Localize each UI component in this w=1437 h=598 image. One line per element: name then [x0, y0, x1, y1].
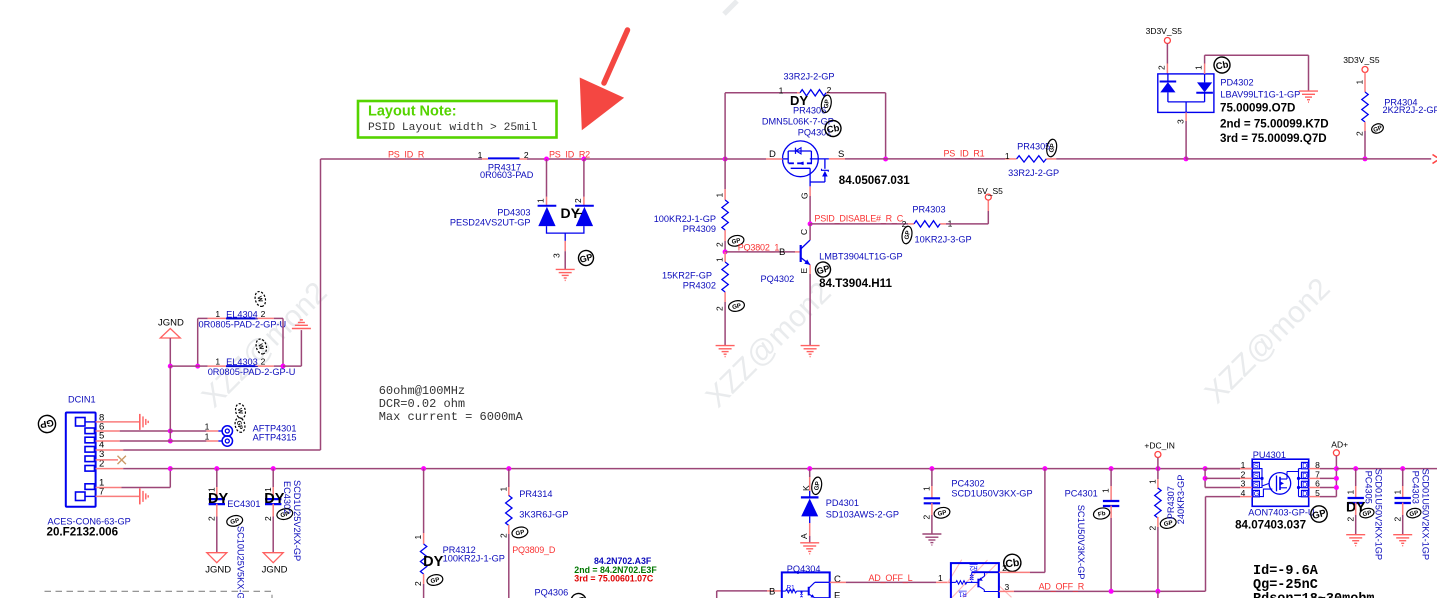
wire bus to right edge [1186, 158, 1431, 160]
svg-text:PC4305: PC4305 [1364, 471, 1374, 504]
junction node PQ3802_1 [723, 249, 728, 254]
wire PD4303 pin3 to ground [552, 241, 566, 270]
junction node PR4307 [1156, 466, 1161, 471]
svg-text:1: 1 [1345, 490, 1355, 495]
resistor PR4304 2K2R2J-2-GP [1355, 73, 1437, 137]
svg-text:EL4304: EL4304 [226, 309, 258, 319]
power terminal AD+ [1331, 440, 1348, 456]
wire bus drop to pin2 [1204, 469, 1206, 488]
junction node pin2 [1203, 476, 1208, 481]
junction node PC4301 [1109, 466, 1114, 471]
svg-text:R1: R1 [958, 590, 967, 597]
svg-text:0R0603-PAD: 0R0603-PAD [480, 170, 534, 180]
svg-text:100KR2J-1-GP: 100KR2J-1-GP [443, 554, 505, 564]
pin7 lead PU4301 [1309, 477, 1320, 479]
stamp near PR4314 [511, 526, 529, 539]
svg-text:AFTP4315: AFTP4315 [253, 433, 297, 443]
svg-text:G: G [800, 192, 810, 199]
wire PD4302 pin3 down to bus [1176, 112, 1187, 158]
junction node AD row2 [1334, 476, 1339, 481]
junction node PR4307 ADOFFR [1155, 589, 1160, 594]
svg-text:DMN5L06K-7-GP: DMN5L06K-7-GP [762, 117, 834, 127]
wire MOSFET gate down [800, 186, 811, 224]
svg-text:1: 1 [1148, 479, 1158, 484]
svg-text:1: 1 [215, 309, 220, 319]
wire PR4302 to ground [724, 302, 726, 346]
svg-text:PR4307: PR4307 [1166, 486, 1176, 519]
svg-text:PS_ID_R1: PS_ID_R1 [944, 149, 985, 159]
svg-text:0R0805-PAD-2-GP-U: 0R0805-PAD-2-GP-U [199, 320, 287, 330]
wire EL4304 right vertical [282, 318, 284, 366]
resistor PR4307 240KR3-GP [1148, 469, 1162, 592]
junction node PC4301 ADOFFR [1109, 589, 1114, 594]
svg-text:PR4309: PR4309 [683, 224, 716, 234]
off-page connector right [1433, 155, 1437, 164]
junction node PU4301 pin1 [1203, 466, 1208, 471]
svg-text:AD+: AD+ [1331, 440, 1348, 450]
svg-text:3K3R6J-GP: 3K3R6J-GP [519, 510, 568, 520]
svg-text:PC4303: PC4303 [1411, 471, 1421, 504]
note 60ohm text [379, 384, 524, 424]
svg-text:2K2R2J-2-GP: 2K2R2J-2-GP [1383, 105, 1437, 115]
svg-text:E: E [834, 591, 840, 598]
svg-text:2: 2 [261, 309, 266, 319]
junction node pin5 JGND [168, 439, 173, 444]
wire bus down to PQ4303 pin2 [1044, 469, 1046, 573]
svg-text:SCD01U50V2KX-1GP: SCD01U50V2KX-1GP [1421, 469, 1431, 560]
wire loop right vertical [885, 93, 887, 159]
stamp near PR4307 [1159, 516, 1177, 529]
note Id Qg Rdson [1253, 564, 1375, 598]
wire MOSFET source to bus right [845, 158, 943, 160]
svg-text:PSID_DISABLE#_R_C: PSID_DISABLE#_R_C [814, 214, 903, 224]
power terminal +DC_IN [1144, 441, 1174, 458]
wire gate down to AD_OFF_R [1205, 497, 1207, 592]
junction node AD row3 [1334, 485, 1339, 490]
jumper EL4304 0R0805-PAD-2-GP-U [198, 309, 286, 330]
svg-text:3: 3 [552, 253, 562, 258]
svg-text:S: S [1254, 463, 1259, 470]
resistor PR4303 10KR2J-3-GP [902, 205, 972, 245]
svg-text:C: C [834, 574, 841, 585]
watermark partial top [724, 1, 737, 14]
earth ground above EL4303 right [292, 328, 311, 330]
svg-text:D: D [1302, 473, 1307, 480]
svg-text:2: 2 [498, 533, 508, 538]
junction node PD4301 [807, 466, 812, 471]
junction node MOSFET source [883, 157, 888, 162]
svg-text:3: 3 [1005, 582, 1010, 592]
stamp Cb near PD4302 [1213, 56, 1232, 75]
svg-text:PR4314: PR4314 [519, 489, 552, 499]
svg-text:PQ3809_D: PQ3809_D [512, 545, 556, 555]
svg-text:1: 1 [922, 486, 932, 491]
stamp near PR4312 [426, 573, 444, 586]
svg-text:2: 2 [922, 515, 932, 520]
junction node PS_ID_R2 pin2 [581, 157, 586, 162]
svg-text:1: 1 [536, 198, 546, 203]
svg-text:5: 5 [1315, 488, 1320, 498]
svg-text:JGND: JGND [262, 565, 288, 576]
pin1 lead PU4301 [1205, 468, 1240, 470]
junction node PR4304 bus [1363, 156, 1368, 161]
stamp near PR4304 [1370, 122, 1384, 135]
wire DCIN pin1 row [96, 487, 122, 489]
svg-text:PC4302: PC4302 [951, 479, 984, 489]
capacitor EC4301 SC10U25V5KX-GP [207, 469, 261, 553]
ground below PR4302 [716, 345, 735, 347]
svg-text:JGND: JGND [158, 318, 184, 329]
wire 3D3V_S5 to PD4302 pin2 [1157, 44, 1168, 74]
pin5 lead PU4301 [1309, 496, 1320, 498]
svg-text:2: 2 [413, 581, 423, 586]
junction node PS_ID_R2 pin1 [544, 157, 549, 162]
wire PD4302 pin1 up and right to ground [1194, 55, 1309, 91]
svg-text:LMBT3904LT1G-GP: LMBT3904LT1G-GP [819, 252, 903, 262]
ground JGND top [158, 318, 184, 339]
svg-text:1: 1 [205, 432, 210, 442]
wire PR4304 to bus [1364, 131, 1366, 159]
svg-text:1: 1 [1101, 488, 1111, 493]
wire +DC_IN to bus [1157, 458, 1159, 469]
power terminal 3D3V_S5 left [1146, 26, 1183, 44]
power terminal 5V_S5 [977, 186, 1003, 200]
svg-text:Cb: Cb [1215, 59, 1230, 72]
svg-text:2: 2 [207, 516, 217, 521]
svg-text:1: 1 [1241, 460, 1246, 470]
svg-text:SC1U50V3KX-GP: SC1U50V3KX-GP [1076, 505, 1086, 580]
pin4 gate lead PU4301 [1206, 496, 1241, 498]
svg-text:SCD1U50V3KX-GP: SCD1U50V3KX-GP [951, 489, 1032, 499]
transistor PQ4304 digital NPN block [769, 564, 841, 598]
svg-text:2: 2 [1345, 517, 1355, 522]
svg-text:C: C [799, 229, 809, 235]
svg-text:3: 3 [1176, 119, 1186, 124]
svg-text:3rd = 75.00601.07C: 3rd = 75.00601.07C [574, 574, 654, 584]
svg-text:75.00099.O7D: 75.00099.O7D [1220, 102, 1295, 115]
svg-text:1: 1 [498, 487, 508, 492]
no-connect X pin3 [118, 456, 126, 464]
transistor PQ4302 LMBT3904LT1G NPN [761, 224, 903, 284]
ground JGND below EC4301 [205, 553, 231, 576]
svg-text:B: B [769, 587, 775, 598]
junction node EC4302 [271, 466, 276, 471]
jumper EL4303 0R0805-PAD-2-GP-U [170, 357, 295, 377]
svg-text:1: 1 [938, 573, 943, 583]
svg-text:8: 8 [1315, 460, 1320, 470]
svg-text:10KR2J-3-GP: 10KR2J-3-GP [915, 235, 972, 245]
stamp near EC4302 [276, 507, 294, 520]
svg-text:3D3V_S5: 3D3V_S5 [1146, 26, 1183, 36]
wire EL4303 node to earth ground [283, 365, 301, 367]
ground below PD4303 [556, 268, 575, 270]
svg-text:DY: DY [423, 554, 443, 570]
diode PD4301 SD103AWS-2-GP [799, 469, 899, 543]
wire DCIN pin8 to chassis ground [96, 421, 140, 423]
capacitor PC4303 SCD01U50V2KX-1GP [1392, 469, 1411, 535]
wire PR4303 to 5V_S5 [946, 223, 988, 225]
svg-text:1: 1 [1355, 80, 1365, 85]
svg-text:33R2J-2-GP: 33R2J-2-GP [784, 72, 835, 82]
stamp near PC4302 [933, 506, 951, 519]
wire PQ4302 emitter to ground [809, 274, 811, 346]
svg-text:84.07403.037: 84.07403.037 [1235, 519, 1306, 532]
svg-text:PC4301: PC4301 [1065, 489, 1098, 499]
svg-text:2: 2 [1392, 517, 1402, 522]
wire PR4305 to PD4302 node [1056, 158, 1186, 160]
svg-text:5V_S5: 5V_S5 [977, 186, 1003, 196]
svg-text:+DC_IN: +DC_IN [1144, 441, 1174, 451]
svg-text:3rd = 75.00099.Q7D: 3rd = 75.00099.Q7D [1220, 132, 1327, 145]
junction node MOSFET drain loop [723, 157, 728, 162]
svg-text:PR4303: PR4303 [912, 205, 945, 215]
stamp ovals near AFTP [234, 403, 246, 419]
svg-text:PD4303: PD4303 [497, 208, 530, 218]
junction node PR4314 [506, 466, 511, 471]
stamp GP near PQ4302 [814, 260, 832, 278]
svg-text:PR4305: PR4305 [1017, 142, 1050, 152]
diode PD4302 LBAV99LT1G dual [1158, 74, 1300, 113]
wire EL4304 left vertical [197, 318, 199, 366]
svg-text:1: 1 [1005, 151, 1010, 161]
wire PR4309 to base node [724, 241, 726, 252]
svg-text:D: D [1302, 482, 1307, 489]
test point AFTP4315 [205, 432, 297, 447]
svg-text:E: E [799, 268, 809, 274]
svg-text:4: 4 [1241, 488, 1246, 498]
stamp GP near PU4301 [1309, 504, 1329, 524]
ground below PC4303 [1393, 534, 1412, 536]
junction node PR4312 [421, 466, 426, 471]
capacitor PC4301 SC1U50V3KX-GP [1065, 469, 1120, 592]
svg-text:1: 1 [779, 86, 784, 96]
wire DCIN pin4 row [96, 449, 124, 451]
junction node pin1 bus [168, 466, 173, 471]
wire loop top right segment [830, 92, 886, 94]
svg-text:Qg=-25nC: Qg=-25nC [1253, 578, 1318, 593]
svg-text:84.T3904.H11: 84.T3904.H11 [819, 277, 892, 290]
junction node EL4303 pin1 [195, 364, 200, 369]
svg-text:DCIN1: DCIN1 [68, 395, 96, 405]
stamp GP near DCIN1 [37, 414, 57, 434]
svg-text:B: B [779, 247, 785, 258]
svg-text:S: S [1254, 473, 1259, 480]
svg-text:S: S [1254, 482, 1259, 489]
wire PR4307 below junction [1157, 591, 1159, 598]
svg-text:K: K [801, 485, 811, 491]
svg-text:1: 1 [413, 535, 423, 540]
pin2 lead PU4301 [1205, 477, 1240, 479]
ground below PD4301 [800, 542, 819, 544]
svg-text:AD_OFF_L: AD_OFF_L [869, 573, 913, 583]
wire PR4317 to PS_ID_R2 node [527, 158, 584, 160]
wire AD_OFF_R [999, 590, 1014, 592]
stamp near PC4305 [1359, 507, 1375, 519]
wire DCIN pin5 row [96, 440, 120, 442]
stamp near EC4301 [226, 514, 244, 527]
svg-text:Cb: Cb [826, 123, 841, 136]
svg-text:15KR2F-GP: 15KR2F-GP [662, 271, 712, 281]
junction node PC4303 [1400, 466, 1405, 471]
svg-text:AON7403-GP-U: AON7403-GP-U [1248, 508, 1314, 518]
svg-text:PESD24VS2UT-GP: PESD24VS2UT-GP [450, 218, 531, 228]
svg-text:2: 2 [1002, 563, 1007, 573]
wire gate-drain loop left vertical [724, 93, 726, 159]
junction node PQ4303 feed [1042, 466, 1047, 471]
svg-text:D: D [1302, 463, 1307, 470]
svg-text:1: 1 [1392, 490, 1402, 495]
wire bus to PR4309 [724, 159, 726, 189]
svg-text:G: G [1254, 491, 1259, 498]
junction node AD row1 [1334, 466, 1339, 471]
resistor PR4314 3K3R6J-GP [498, 469, 568, 598]
svg-text:1: 1 [205, 422, 210, 432]
svg-text:60ohm@100MHz: 60ohm@100MHz [379, 384, 465, 398]
svg-text:PD4301: PD4301 [826, 498, 859, 508]
svg-text:1: 1 [215, 357, 220, 367]
svg-text:240KR3-GP: 240KR3-GP [1176, 475, 1186, 525]
power terminal 3D3V_S5 right [1343, 55, 1380, 73]
transistor PU4301 AON7403 P-MOSFET block [1252, 450, 1309, 506]
stamp near PC4303 [1406, 507, 1422, 519]
svg-text:PS_ID_R: PS_ID_R [388, 150, 425, 160]
junction node PC4302 [929, 466, 934, 471]
stamp near PC4301 [1092, 507, 1110, 521]
resistor PR4317 0R0603-PAD inline [478, 150, 534, 180]
wire under PS_ID_R1 [943, 158, 1005, 160]
svg-text:3D3V_S5: 3D3V_S5 [1343, 55, 1380, 65]
svg-text:2: 2 [1157, 65, 1167, 70]
wire DCIN pin7 to chassis ground [96, 495, 140, 497]
stamp near PR4302 [728, 299, 746, 312]
svg-text:SCD01U50V2KX-1GP: SCD01U50V2KX-1GP [1374, 469, 1384, 560]
red arrow annotation [580, 30, 628, 130]
svg-text:Rdson=18~30mohm: Rdson=18~30mohm [1253, 592, 1375, 598]
chassis ground pin8 [139, 414, 141, 430]
svg-text:DY: DY [561, 205, 581, 221]
svg-text:EC4301: EC4301 [227, 499, 260, 509]
test point AFTP4301 [205, 422, 297, 437]
svg-text:2: 2 [1148, 526, 1158, 531]
svg-text:33R2J-2-GP: 33R2J-2-GP [1008, 168, 1059, 178]
junction node PD4302 pin3 [1184, 156, 1189, 161]
stamp near PR4305 [1045, 139, 1058, 158]
junction node PSID_DISABLE [808, 221, 813, 226]
junction node PC4305 [1353, 466, 1358, 471]
svg-text:D: D [769, 149, 776, 160]
ground JGND below EC4302 [262, 553, 288, 576]
svg-text:1: 1 [715, 193, 725, 198]
wire loop top left segment [725, 92, 797, 94]
stamp Cb near PQ4301 [824, 119, 843, 138]
resistor PR4312 100KR2J-1-GP [413, 469, 505, 598]
wire vertical from top bus down to DCIN pin4 [320, 159, 322, 450]
svg-text:2nd = 75.00099.K7D: 2nd = 75.00099.K7D [1220, 118, 1329, 131]
wire PS_ID_R2 to MOSFET loop [584, 158, 725, 160]
pin3 lead PU4301 [1205, 487, 1240, 489]
svg-text:PQ4302: PQ4302 [761, 274, 795, 284]
stamp near PQ4306 [569, 592, 587, 598]
svg-text:EL4303: EL4303 [226, 357, 258, 367]
ground below PC4302 [922, 533, 941, 535]
wire PS_ID_R top bus left segment [321, 158, 483, 160]
svg-text:DCR=0.02 ohm: DCR=0.02 ohm [379, 397, 465, 411]
wire JGND down to EL node [169, 338, 171, 366]
resistor PR4309 100KR2J-1-GP [654, 189, 729, 247]
wire to PQ4304 base from bottom edge [716, 591, 718, 598]
stamp near PD4301 [810, 476, 823, 495]
svg-text:SD103AWS-2-GP: SD103AWS-2-GP [826, 510, 899, 520]
svg-text:2: 2 [715, 306, 725, 311]
svg-text:PQ3802_1: PQ3802_1 [738, 243, 780, 253]
ground below PC4305 [1346, 534, 1365, 536]
svg-text:1: 1 [478, 150, 483, 160]
layout note box [358, 101, 557, 138]
wire DCIN pin3 no connect [96, 459, 118, 461]
connector DCIN1 ACES-CON6-63-GP [66, 395, 104, 507]
resistor PR4305 33R2J-2-GP inline [1005, 142, 1059, 179]
svg-text:AD_OFF_R: AD_OFF_R [1039, 582, 1085, 592]
wire AD+ net to right edge [1336, 468, 1437, 470]
svg-text:Id=-9.6A: Id=-9.6A [1253, 564, 1319, 579]
bottom bus +DC_IN [170, 468, 1252, 470]
wire PQ4303 pin2 lead [999, 571, 1030, 573]
svg-text:LBAV99LT1G-1-GP: LBAV99LT1G-1-GP [1220, 90, 1300, 100]
svg-text:2: 2 [573, 198, 583, 203]
stamp near PR4306 [820, 94, 833, 113]
resistor PR4306 33R2J-2-GP [779, 72, 835, 116]
svg-text:PR4302: PR4302 [683, 281, 716, 291]
svg-text:A: A [799, 533, 809, 539]
svg-text:DY: DY [208, 491, 228, 507]
wire DCIN pin2 row to bottom bus [96, 468, 124, 470]
svg-text:0R0805-PAD-2-GP-U: 0R0805-PAD-2-GP-U [208, 367, 296, 377]
svg-text:SCD1U25V2KX-GP: SCD1U25V2KX-GP [292, 480, 302, 561]
wire base node to PQ4302 [725, 251, 795, 253]
svg-text:2: 2 [715, 242, 725, 247]
svg-text:PSID Layout width > 25mil: PSID Layout width > 25mil [368, 122, 538, 134]
junction node EC4301 [214, 466, 219, 471]
stamp near PR4309 [727, 234, 745, 247]
capacitor EC4302 SCD1U25V2KX-GP [263, 469, 285, 553]
capacitor PC4305 SCD01U50V2KX-1GP [1345, 469, 1366, 535]
pin6 lead PU4301 [1309, 487, 1320, 489]
svg-text:D: D [1302, 491, 1307, 498]
junction node JGND EL4303 [168, 364, 173, 369]
diode PD4303 PESD24VS2UT dual TVS [450, 159, 594, 241]
svg-text:2: 2 [263, 516, 273, 521]
junction node pin6 JGND [168, 429, 173, 434]
svg-text:DY: DY [264, 491, 284, 507]
wire AD+ vertical [1335, 456, 1337, 497]
wire pin5 to AFTP4315 [170, 440, 206, 442]
svg-text:1: 1 [715, 257, 725, 262]
ground right of PD4302 [1299, 90, 1318, 92]
svg-text:Max current = 6000mA: Max current = 6000mA [379, 410, 524, 424]
stamp W above EL4303 [255, 338, 269, 355]
stamp near PR4303 [901, 226, 914, 245]
ground below PQ4302 [801, 345, 820, 347]
svg-text:SC10U25V5KX-GP: SC10U25V5KX-GP [236, 526, 246, 598]
wire DCIN pin6 row [96, 430, 120, 432]
svg-text:JGND: JGND [205, 565, 231, 576]
resistor PR4302 15KR2F-GP [662, 252, 728, 311]
svg-text:100KR2J-1-GP: 100KR2J-1-GP [654, 214, 716, 224]
transistor PQ4303 block rotated [948, 560, 1012, 598]
chassis ground pin7 [139, 488, 141, 504]
svg-text:2: 2 [261, 357, 266, 367]
stamp W above EL4304 [254, 290, 268, 307]
